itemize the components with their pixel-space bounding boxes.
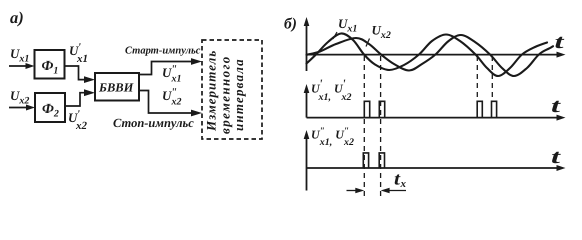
svg-text:Ux2: Ux2 bbox=[10, 88, 29, 107]
svg-text:Измеритель: Измеритель bbox=[204, 50, 219, 132]
svg-text:t: t bbox=[551, 146, 562, 168]
svg-text:Ux1: Ux1 bbox=[338, 16, 357, 35]
svg-text:U'x1: U'x1 bbox=[69, 42, 88, 66]
svg-text:б): б) bbox=[284, 16, 297, 33]
svg-text:U"x2: U"x2 bbox=[162, 87, 182, 108]
svg-text:Старт-импульс: Старт-импульс bbox=[125, 46, 201, 57]
svg-text:а): а) bbox=[10, 8, 24, 27]
svg-text:t: t bbox=[555, 31, 566, 53]
svg-text:Стоп-импульс: Стоп-импульс bbox=[113, 116, 194, 130]
svg-text:U'x1, U'x2: U'x1, U'x2 bbox=[311, 77, 352, 104]
svg-text:U"x1: U"x1 bbox=[162, 64, 182, 85]
svg-text:Ф2: Ф2 bbox=[42, 102, 59, 120]
svg-text:U"x1, U"x2: U"x1, U"x2 bbox=[311, 126, 354, 148]
svg-text:U'x2: U'x2 bbox=[68, 109, 87, 133]
svg-text:x: x bbox=[400, 178, 407, 190]
svg-text:интервала: интервала bbox=[231, 58, 246, 131]
svg-text:Ux2: Ux2 bbox=[372, 23, 391, 42]
svg-text:БВВИ: БВВИ bbox=[98, 81, 135, 95]
svg-text:Ф1: Ф1 bbox=[42, 59, 59, 77]
svg-text:t: t bbox=[551, 95, 562, 117]
svg-text:Ux1: Ux1 bbox=[10, 46, 29, 65]
